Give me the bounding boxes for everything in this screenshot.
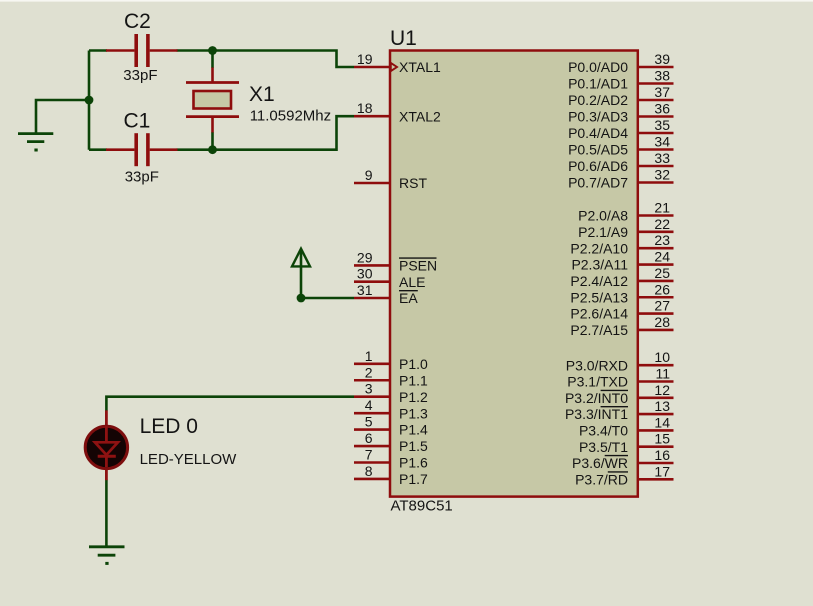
- overline for WR: [605, 455, 628, 457]
- svg-text:38: 38: [654, 68, 670, 84]
- svg-text:26: 26: [654, 281, 670, 297]
- svg-text:37: 37: [654, 84, 670, 100]
- overline for EA: [399, 290, 418, 292]
- svg-text:29: 29: [357, 249, 373, 265]
- svg-text:4: 4: [365, 397, 373, 413]
- svg-text:15: 15: [654, 431, 670, 447]
- pin 2 (P1.1) stub: [354, 379, 390, 382]
- pin 3 (P1.2) stub: [354, 395, 390, 398]
- pin 39 (P0.0/AD0) stub: [638, 66, 674, 69]
- svg-text:31: 31: [357, 282, 373, 298]
- svg-text:P0.0/AD0: P0.0/AD0: [568, 59, 628, 75]
- overline for PSEN: [399, 257, 437, 259]
- pin 31 (EA) stub: [354, 297, 390, 300]
- pin 11 (P3.1/TXD) stub: [638, 380, 674, 383]
- pin 14 (P3.4/T0) stub: [638, 429, 674, 432]
- svg-text:P1.7: P1.7: [399, 471, 428, 487]
- svg-text:X1: X1: [249, 83, 275, 106]
- pin 17 (P3.7/RD) stub: [638, 478, 674, 481]
- svg-text:P2.1/A9: P2.1/A9: [578, 224, 628, 240]
- overline for INT0: [601, 389, 628, 391]
- pin 26 (P2.5/A13) stub: [638, 296, 674, 299]
- svg-text:P2.0/A8: P2.0/A8: [578, 208, 628, 224]
- svg-text:16: 16: [654, 447, 670, 463]
- svg-text:22: 22: [654, 216, 670, 232]
- svg-text:P0.5/AD5: P0.5/AD5: [568, 142, 628, 158]
- svg-text:P1.0: P1.0: [399, 356, 428, 372]
- wire XTAL2 net: horizontal to chip: [177, 116, 355, 150]
- LED 0 component: [85, 410, 127, 480]
- svg-text:28: 28: [654, 314, 670, 330]
- overline for INT1: [601, 406, 628, 408]
- svg-text:P2.7/A15: P2.7/A15: [570, 322, 628, 338]
- pin 27 (P2.6/A14) stub: [638, 312, 674, 315]
- svg-text:14: 14: [654, 414, 670, 430]
- capacitor C1: [106, 133, 178, 166]
- capacitor C2: [106, 34, 178, 67]
- pin 10 (P3.0/RXD) stub: [638, 364, 674, 367]
- svg-text:P2.6/A14: P2.6/A14: [570, 306, 628, 322]
- svg-text:P3.3/INT1: P3.3/INT1: [565, 406, 628, 422]
- svg-text:P1.3: P1.3: [399, 405, 428, 421]
- svg-text:13: 13: [654, 398, 670, 414]
- pin 38 (P0.1/AD1) stub: [638, 82, 674, 85]
- pin 30 (ALE) stub: [354, 280, 390, 283]
- svg-text:P3.5/T1: P3.5/T1: [579, 439, 628, 455]
- svg-text:8: 8: [365, 463, 373, 479]
- power terminal arrow: [292, 249, 310, 298]
- svg-text:19: 19: [357, 51, 373, 67]
- svg-text:P2.2/A10: P2.2/A10: [570, 240, 628, 256]
- pin 33 (P0.6/AD6) stub: [638, 165, 674, 168]
- svg-text:P3.2/INT0: P3.2/INT0: [565, 390, 628, 406]
- svg-text:23: 23: [654, 232, 670, 248]
- junction dot power terminal: [297, 294, 306, 303]
- svg-text:P0.4/AD4: P0.4/AD4: [568, 125, 628, 141]
- ground symbol below LED: [89, 547, 125, 564]
- svg-text:34: 34: [654, 134, 670, 150]
- wire XTAL1 net: horizontal to chip: [177, 51, 355, 68]
- svg-text:P0.1/AD1: P0.1/AD1: [568, 76, 628, 92]
- svg-text:9: 9: [365, 167, 373, 183]
- pin 1 (P1.0) stub: [354, 362, 390, 365]
- svg-text:7: 7: [365, 447, 373, 463]
- wire XTAL2 net: ground side segment: [89, 148, 107, 151]
- svg-text:P1.1: P1.1: [399, 372, 428, 388]
- svg-text:11.0592Mhz: 11.0592Mhz: [250, 107, 331, 124]
- svg-text:P2.3/A11: P2.3/A11: [571, 257, 628, 273]
- svg-text:39: 39: [654, 51, 670, 67]
- svg-text:35: 35: [654, 117, 670, 133]
- pin 8 (P1.7) stub: [354, 478, 390, 481]
- pin 34 (P0.5/AD5) stub: [638, 148, 674, 151]
- svg-text:P1.4: P1.4: [399, 422, 428, 438]
- overline for RD: [608, 471, 628, 473]
- svg-text:21: 21: [654, 200, 670, 216]
- pin 25 (P2.4/A12) stub: [638, 280, 674, 283]
- svg-text:36: 36: [654, 101, 670, 117]
- svg-text:17: 17: [654, 463, 670, 479]
- svg-text:C2: C2: [124, 10, 151, 33]
- svg-text:1: 1: [365, 348, 373, 364]
- pin 9 (RST) stub: [354, 182, 390, 185]
- svg-text:P3.7/RD: P3.7/RD: [575, 471, 628, 487]
- pin 21 (P2.0/A8) stub: [638, 214, 674, 217]
- svg-text:27: 27: [654, 298, 670, 314]
- svg-text:P1.2: P1.2: [399, 389, 428, 405]
- ground symbol left: [18, 134, 53, 150]
- svg-text:P3.6/WR: P3.6/WR: [572, 455, 628, 471]
- pin 12 (P3.2/INT0) stub: [638, 396, 674, 399]
- svg-text:EA: EA: [399, 290, 418, 306]
- pin 37 (P0.2/AD2) stub: [638, 99, 674, 102]
- pin 15 (P3.5/T1) stub: [638, 445, 674, 448]
- svg-text:10: 10: [654, 349, 670, 365]
- pin 18 (XTAL2) stub: [354, 115, 390, 118]
- svg-text:24: 24: [654, 249, 670, 265]
- junction dot bottom of crystal: [208, 145, 217, 154]
- pin 22 (P2.1/A9) stub: [638, 231, 674, 234]
- svg-text:33pF: 33pF: [125, 168, 159, 185]
- svg-text:P0.7/AD7: P0.7/AD7: [568, 175, 628, 191]
- svg-text:P3.4/T0: P3.4/T0: [579, 423, 628, 439]
- op-amp U1 body AT89C51: [390, 51, 638, 497]
- pin 7 (P1.6) stub: [354, 461, 390, 464]
- svg-text:P3.1/TXD: P3.1/TXD: [567, 374, 628, 390]
- pin 24 (P2.3/A11) stub: [638, 263, 674, 266]
- wire P1.2 to LED: [106, 397, 354, 411]
- pin 23 (P2.2/A10) stub: [638, 247, 674, 250]
- pin 13 (P3.3/INT1) stub: [638, 413, 674, 416]
- svg-text:RST: RST: [399, 175, 427, 191]
- junction dot at left vertical / ground wire: [85, 96, 94, 105]
- wire to ground: [36, 100, 89, 133]
- pin 29 (PSEN) stub: [354, 264, 390, 267]
- wire left vertical joining C2/C1: [88, 51, 91, 150]
- svg-text:P1.5: P1.5: [399, 438, 428, 454]
- svg-text:3: 3: [365, 381, 373, 397]
- svg-text:XTAL2: XTAL2: [399, 108, 441, 124]
- wire XTAL1 net: ground side segment: [89, 49, 107, 52]
- pin 32 (P0.7/AD7) stub: [638, 181, 674, 184]
- svg-text:P2.5/A13: P2.5/A13: [570, 289, 628, 305]
- pin 35 (P0.4/AD4) stub: [638, 132, 674, 135]
- svg-text:30: 30: [357, 266, 373, 282]
- svg-text:18: 18: [357, 100, 373, 116]
- svg-text:P1.6: P1.6: [399, 455, 428, 471]
- svg-text:PSEN: PSEN: [399, 258, 437, 274]
- svg-text:12: 12: [654, 382, 670, 398]
- svg-text:33: 33: [654, 150, 670, 166]
- svg-text:P0.3/AD3: P0.3/AD3: [568, 109, 628, 125]
- pin 6 (P1.5) stub: [354, 445, 390, 448]
- svg-text:P0.2/AD2: P0.2/AD2: [568, 92, 628, 108]
- pin 36 (P0.3/AD3) stub: [638, 115, 674, 118]
- junction dot top of crystal: [208, 46, 217, 55]
- svg-text:LED 0: LED 0: [140, 415, 198, 438]
- pin 5 (P1.4) stub: [354, 428, 390, 431]
- pin 28 (P2.7/A15) stub: [638, 329, 674, 332]
- svg-text:LED-YELLOW: LED-YELLOW: [140, 451, 238, 468]
- svg-text:ALE: ALE: [399, 274, 425, 290]
- wire crystal bottom stub: [211, 132, 214, 149]
- svg-text:2: 2: [365, 364, 373, 380]
- XTAL1 clock-input arrow on pin 19: [391, 63, 397, 71]
- crystal X1: [186, 67, 239, 133]
- svg-text:P2.4/A12: P2.4/A12: [570, 273, 628, 289]
- pin 19 (XTAL1) stub: [354, 66, 390, 69]
- svg-text:32: 32: [654, 167, 670, 183]
- wire crystal top stub: [211, 51, 214, 68]
- svg-text:U1: U1: [390, 27, 417, 50]
- svg-text:33pF: 33pF: [123, 67, 157, 84]
- wire power to EA pin: [301, 297, 354, 300]
- svg-text:5: 5: [365, 414, 373, 430]
- pin 16 (P3.6/WR) stub: [638, 462, 674, 465]
- svg-text:P0.6/AD6: P0.6/AD6: [568, 158, 628, 174]
- svg-text:AT89C51: AT89C51: [391, 498, 453, 515]
- svg-text:C1: C1: [124, 110, 151, 133]
- wire LED cathode to ground: [105, 480, 108, 546]
- svg-text:25: 25: [654, 265, 670, 281]
- svg-text:6: 6: [365, 430, 373, 446]
- svg-text:11: 11: [655, 366, 670, 382]
- svg-text:XTAL1: XTAL1: [399, 59, 441, 75]
- svg-text:P3.0/RXD: P3.0/RXD: [566, 357, 628, 373]
- pin 4 (P1.3) stub: [354, 412, 390, 415]
